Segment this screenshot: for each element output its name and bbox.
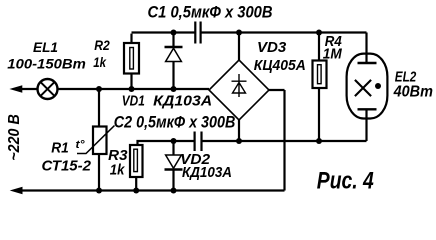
wire: R2 top lead (130, 34, 132, 43)
node: VD1 bottom junction (171, 86, 177, 92)
node: R1 top junction (96, 86, 102, 92)
wire: bottom bus (21, 189, 285, 191)
capacitor C2 (195, 132, 202, 152)
node: VD2 bottom junction (171, 188, 177, 194)
resistor R4 (313, 33, 327, 142)
wire: EL2 top lead (365, 33, 367, 64)
svg-text:КД103А: КД103А (153, 92, 212, 109)
capacitor C1 (195, 22, 200, 44)
svg-text:С1 0,5мкФ х 300В: С1 0,5мкФ х 300В (148, 3, 273, 22)
node: R4 bottom junction (316, 138, 322, 144)
wire: top bus left segment (132, 31, 196, 33)
resistor R2 (124, 43, 139, 89)
node: R3 bottom junction (133, 188, 139, 194)
node: R2 bottom junction (129, 86, 135, 92)
svg-text:1М: 1М (323, 45, 342, 62)
svg-text:VD1: VD1 (122, 92, 145, 109)
diode VD1 (165, 33, 183, 90)
svg-text:R2: R2 (94, 37, 110, 53)
resistor R3 (130, 141, 194, 191)
node: VD2 top junction (171, 138, 177, 144)
wire: EL2 bottom lead (365, 110, 367, 142)
svg-text:КД103А: КД103А (182, 164, 232, 181)
arrow: mains bottom terminal (12, 187, 23, 193)
svg-text:100-150Вт: 100-150Вт (7, 55, 86, 71)
wire: middle bus (21, 88, 209, 90)
svg-text:1k: 1k (110, 162, 125, 179)
svg-text:t°: t° (76, 139, 86, 151)
node: bridge top junction (236, 30, 242, 36)
svg-text:1k: 1k (93, 54, 107, 70)
svg-text:Рис. 4: Рис. 4 (317, 168, 374, 195)
svg-text:40Вт: 40Вт (393, 84, 433, 101)
node: R1 bottom junction (96, 188, 102, 194)
svg-text:СТ15-2: СТ15-2 (42, 158, 92, 175)
svg-text:EL1: EL1 (33, 40, 58, 55)
svg-text:С2 0,5мкФ х 300В: С2 0,5мкФ х 300В (114, 113, 236, 132)
lamp EL1 (38, 79, 58, 99)
wire: top bus right segment (201, 31, 367, 33)
node: VD1 top junction (171, 30, 177, 36)
thermistor R1 (77, 89, 115, 191)
arrow: mains top terminal (11, 86, 22, 92)
node: bridge bottom junction (236, 138, 242, 144)
wire: bridge right vertex riser (269, 90, 285, 191)
svg-text:VD3: VD3 (257, 39, 287, 56)
svg-text:КЦ405А: КЦ405А (254, 57, 306, 74)
wire: lower mid bus (202, 140, 367, 142)
EL2 electrode dot (375, 83, 381, 89)
svg-text:~220 В: ~220 В (6, 114, 23, 161)
bridge rectifier VD3 (209, 33, 269, 142)
svg-text:R1: R1 (51, 139, 69, 156)
lamp EL2 (347, 54, 388, 119)
diode VD2 (165, 141, 183, 191)
node: R4 top junction (316, 30, 322, 36)
